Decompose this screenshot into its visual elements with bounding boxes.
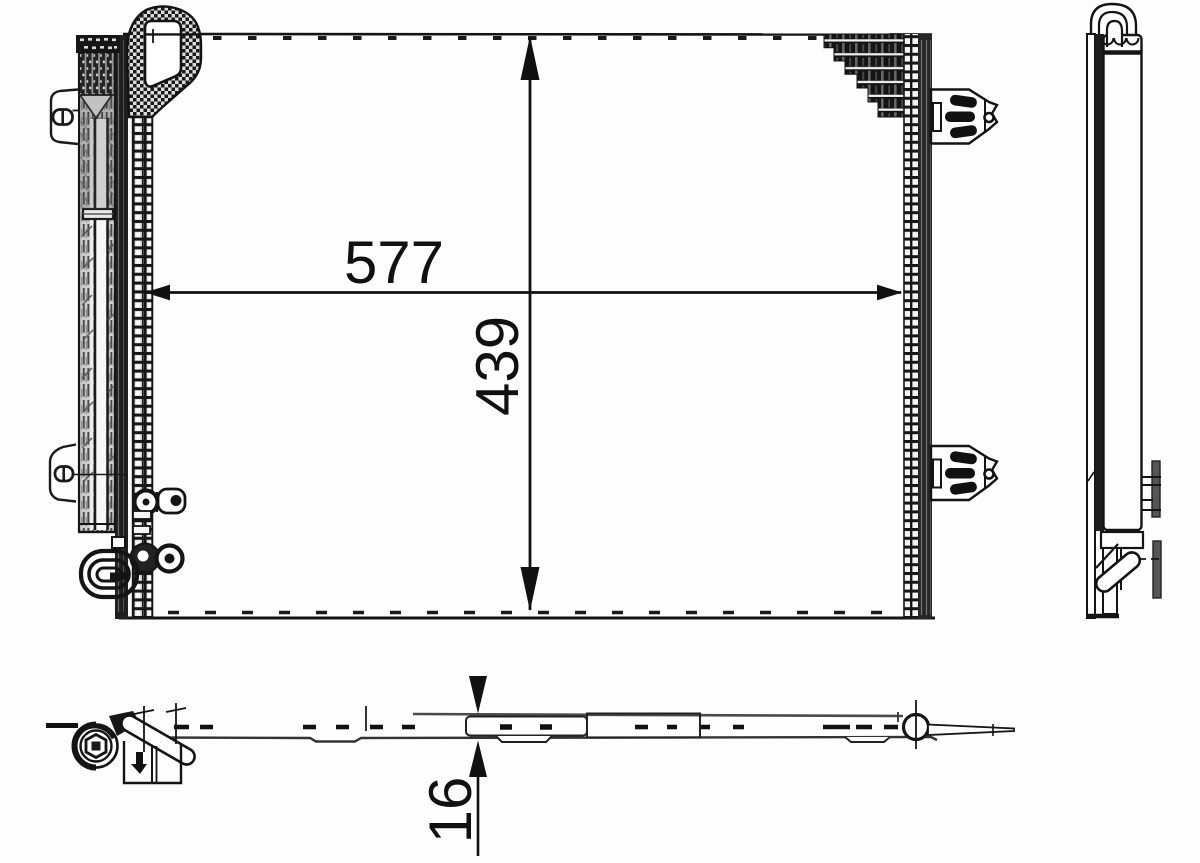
dark hub joining nut to pipe [109, 711, 140, 736]
core top edge [123, 33, 932, 36]
darker tone above collar [81, 96, 114, 209]
svg-text:16: 16 [417, 777, 484, 844]
core bottom edge [119, 617, 935, 620]
bottom strip bottom edge [150, 737, 937, 742]
upper port fitting (left) [135, 489, 186, 514]
left tube ladder column [132, 35, 153, 619]
dim line 439 [529, 37, 532, 610]
fin block above drier [76, 35, 120, 53]
column collar bands [133, 511, 151, 519]
right blade [928, 725, 1014, 736]
arrow left 577 [145, 285, 170, 301]
arrow bottom 439 [521, 567, 540, 611]
left fitting: diagonal pipe [118, 713, 197, 768]
svg-text:577: 577 [344, 229, 444, 296]
side dark band [1095, 34, 1104, 531]
side header inner arch [1107, 21, 1122, 47]
V funnel notch [80, 95, 112, 118]
left fitting: nut circles [75, 711, 141, 768]
left fitting: centreline ticks [143, 706, 145, 752]
side top pipe arch [1091, 4, 1136, 36]
plate tab 1 [496, 736, 552, 742]
receiver drier bottle [79, 42, 115, 532]
inlet pipe loop (top-left) [127, 6, 201, 117]
right tube ladder column [904, 34, 919, 619]
side tube body [1104, 35, 1142, 530]
side cap scallops [1102, 38, 1139, 45]
small step block [112, 537, 125, 548]
plate tab 2 [845, 737, 890, 742]
side bottom pipe (diagonal capsule) [1093, 544, 1143, 595]
inner strong lines [94, 118, 97, 530]
bottom strip top edge [413, 714, 903, 716]
right header dark band [918, 34, 932, 619]
left header dark band [115, 35, 128, 619]
side bottom column [1103, 548, 1117, 614]
side flange connectors [1141, 476, 1161, 478]
side flange strip upper [1152, 461, 1160, 517]
top tube-end tick dashes [213, 36, 825, 40]
lower port fitting (left) [131, 544, 183, 573]
side bottom base [1086, 614, 1119, 619]
bottom tube-end tick dashes [168, 611, 900, 614]
side flange strip lower [1153, 541, 1161, 598]
side frame left strip [1087, 34, 1095, 618]
left fitting: stub bar [46, 723, 78, 728]
dim 16 [469, 676, 487, 714]
side port block [1101, 532, 1143, 548]
left mounting bracket bottom [50, 445, 128, 502]
eye loop bottom-left [81, 551, 137, 597]
bottle bottom cap [79, 523, 115, 525]
dim line 577 [146, 291, 901, 294]
left mounting bracket top [51, 90, 79, 145]
arrow top 439 [521, 36, 540, 80]
right circle fitting [904, 715, 929, 740]
step tick [365, 706, 367, 731]
arrow right 577 [877, 285, 902, 301]
right mounting bracket top [931, 90, 997, 144]
collar joint [83, 209, 113, 219]
svg-text:439: 439 [464, 316, 531, 416]
plate box 2 [587, 714, 700, 738]
fin stair cutaway top-right [824, 34, 904, 117]
right mounting bracket bottom [931, 446, 997, 500]
left fitting: bracket plate [124, 741, 181, 783]
scattered hatch ticks on body [82, 226, 114, 482]
plate box 1 [466, 717, 587, 736]
centre dashes [174, 725, 898, 730]
